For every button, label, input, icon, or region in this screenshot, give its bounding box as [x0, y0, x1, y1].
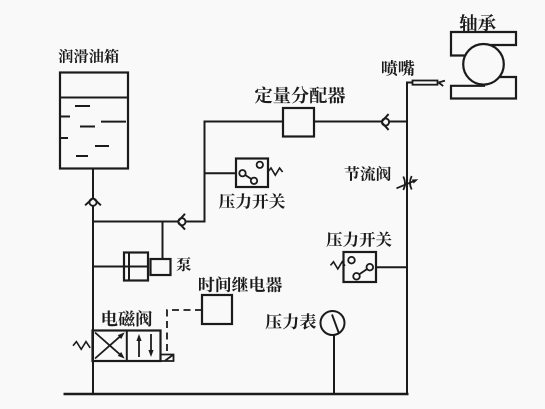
dashed control line	[167, 310, 202, 354]
check valve CV2	[178, 218, 185, 225]
pressure gauge label 压力表	[266, 313, 317, 329]
wire: distributor feed	[204, 121, 284, 123]
pressure switch PS2 box	[344, 252, 377, 282]
throttle valve label 节流阀	[345, 166, 391, 181]
PS2 contacts	[348, 257, 355, 264]
wire: pump inlet	[92, 266, 124, 268]
distributor box	[283, 108, 314, 137]
wire: tank outlet down to bottom bus	[92, 169, 94, 395]
wire: gauge stem	[333, 335, 335, 394]
PS1 contacts	[257, 162, 263, 168]
solenoid valve up arrow	[138, 337, 140, 357]
bottom bus line	[64, 393, 409, 395]
solenoid valve spring	[73, 342, 90, 350]
oil tank label 润滑油箱	[59, 49, 119, 63]
oil tank	[60, 73, 128, 169]
solenoid actuator flag	[161, 355, 174, 362]
bearing outer race bottom	[451, 77, 516, 99]
bearing label 轴承	[460, 14, 496, 31]
bearing outer race top	[451, 32, 516, 56]
PS1 spring	[268, 168, 283, 175]
wire: pump outlet riser	[162, 222, 164, 260]
pressure gauge	[321, 311, 345, 335]
wire: riser to distributor line	[204, 121, 206, 223]
solenoid valve divider	[126, 331, 128, 362]
pump body	[124, 253, 148, 281]
distributor label 定量分配器	[255, 86, 345, 103]
pressure switch PS2 label 压力开关	[327, 232, 392, 248]
solenoid valve body	[93, 331, 161, 362]
pump body inner horizontal	[124, 266, 148, 268]
throttle valve arrow	[397, 180, 416, 188]
PS2 lever	[359, 269, 367, 274]
oil level line	[60, 97, 128, 99]
bearing ball	[463, 44, 504, 85]
pump motor block	[151, 259, 171, 275]
check valve CV3	[382, 118, 389, 125]
gauge needle	[332, 315, 339, 334]
solenoid valve label 电磁阀	[103, 310, 152, 326]
pump body inner vertical	[128, 253, 130, 281]
pressure switch PS1 label 压力开关	[219, 193, 285, 209]
PS2 spring	[331, 262, 346, 269]
wire: PS1 feed	[204, 172, 237, 174]
nozzle spray arrow	[439, 81, 446, 83]
wire: pump bus horizontal	[92, 221, 206, 223]
solenoid valve down arrow	[150, 334, 152, 354]
PS1 lever	[245, 175, 251, 179]
time relay label 时间继电器	[199, 276, 282, 292]
wire: right riser (nozzle to bottom bus)	[406, 83, 408, 395]
time relay box	[202, 295, 232, 324]
nozzle stub wire	[406, 82, 413, 84]
nozzle tube	[413, 81, 438, 85]
pressure switch PS1 box	[236, 159, 268, 188]
check valve CV1 (below tank)	[89, 199, 96, 206]
wire: distributor to nozzle riser	[314, 121, 408, 123]
wire: PS2 to riser	[376, 266, 408, 268]
nozzle label 喷嘴	[382, 60, 414, 76]
pump label 泵	[177, 257, 192, 271]
solenoid valve X arrows	[95, 333, 123, 357]
oil level dashes	[75, 105, 90, 107]
throttle valve arcs	[403, 177, 405, 191]
